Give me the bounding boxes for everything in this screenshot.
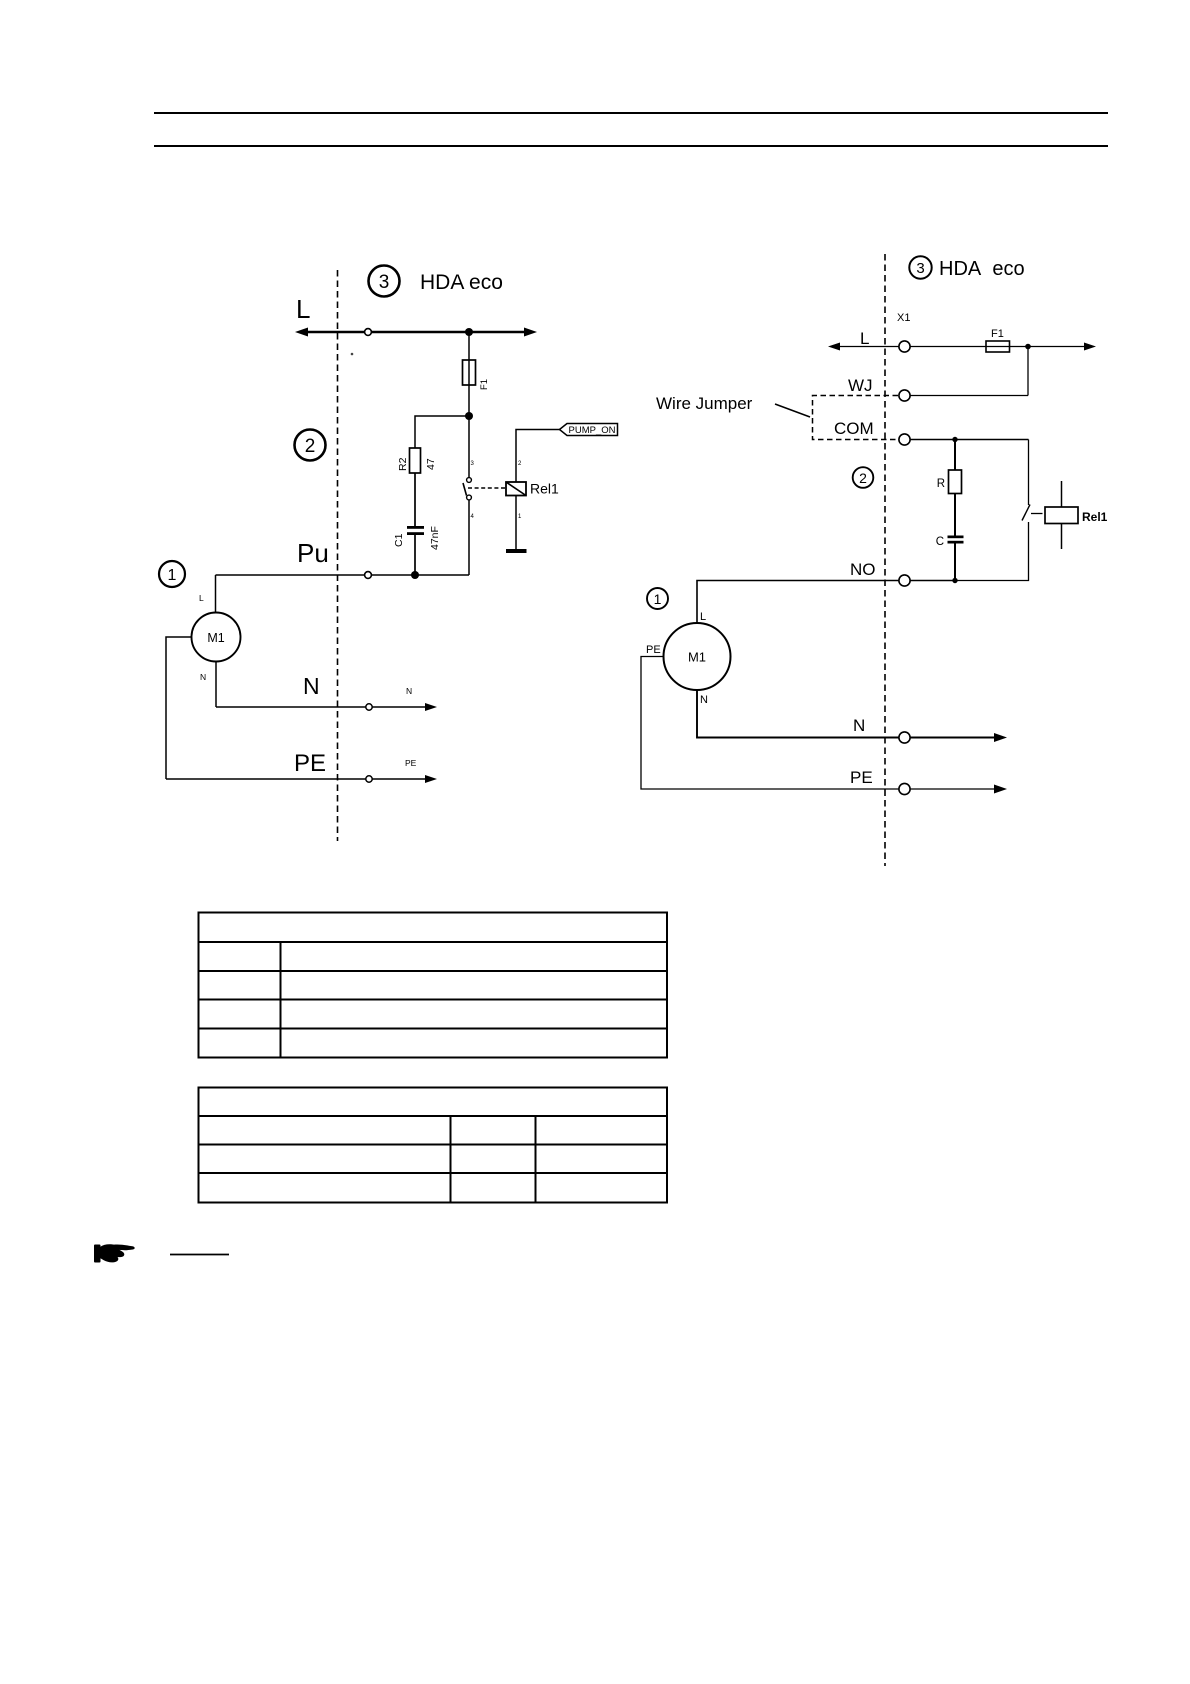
boundary dashed line (right diagram) — [884, 254, 886, 866]
callout circle 1 (right) — [647, 588, 668, 609]
table 1 frame — [199, 913, 668, 1058]
resistor R2 value 47 — [397, 448, 437, 473]
wire Pu line — [216, 574, 470, 576]
callout circle 1 (left) — [159, 561, 185, 587]
dashed actuation link to Rel1 — [468, 487, 506, 489]
wire fuse to node — [468, 385, 470, 416]
callout line to jumper — [775, 404, 810, 417]
svg-text:N: N — [406, 686, 412, 696]
junction COM/R — [952, 437, 957, 442]
wire PE line — [166, 778, 430, 780]
note manicule hand icon — [94, 1244, 135, 1262]
wire C to NO row — [954, 544, 956, 581]
terminal circle on L line — [365, 329, 372, 336]
arrowhead N (right) — [994, 733, 1007, 742]
svg-text:WJ: WJ — [848, 376, 873, 395]
svg-text:1: 1 — [518, 514, 522, 520]
wire L line (left) — [299, 331, 533, 334]
switch blade — [463, 483, 467, 496]
svg-text:PE: PE — [294, 750, 326, 777]
svg-text:NO: NO — [850, 560, 876, 579]
wire fuse to right arrow — [1010, 346, 1093, 348]
wire COM corner down to switch — [1028, 440, 1030, 506]
fuse F1 (right) — [986, 328, 1010, 352]
terminal circle WJ — [899, 390, 910, 401]
svg-text:L: L — [199, 593, 204, 603]
svg-text:N: N — [700, 694, 708, 706]
svg-text:L: L — [860, 329, 869, 348]
wire L row left segment — [832, 346, 899, 348]
svg-text:PUMP_ON: PUMP_ON — [569, 425, 616, 436]
capacitor C — [936, 536, 964, 549]
terminal circle on N line — [366, 704, 372, 710]
wire R2 to C1 — [414, 473, 416, 527]
terminal circle PE (right) — [899, 783, 910, 794]
junction NO/C — [952, 578, 957, 583]
arrowhead L row left — [828, 343, 840, 351]
switch contact upper — [467, 478, 472, 483]
callout circle 3 (right) — [909, 256, 931, 278]
svg-text:L: L — [296, 294, 310, 324]
junction on L line — [465, 328, 473, 336]
switch actuator tick — [1031, 513, 1043, 515]
svg-text:X1: X1 — [897, 312, 910, 324]
svg-text:COM: COM — [834, 419, 874, 438]
wire PE arrow — [911, 788, 1003, 790]
svg-text:3: 3 — [916, 260, 924, 277]
ground — [506, 549, 527, 553]
arrowhead N — [425, 703, 437, 711]
svg-text:4: 4 — [471, 514, 475, 520]
wire NO row left to motor — [697, 581, 899, 624]
wire Pu to motor — [215, 575, 217, 613]
junction Pu/C1 — [411, 571, 419, 579]
terminal circle L — [899, 341, 910, 352]
svg-text:PE: PE — [646, 644, 661, 656]
wire Pu to switch lower contact — [468, 500, 470, 575]
wire NO row right — [911, 580, 956, 582]
terminal circle COM — [899, 434, 910, 445]
wire Rel1 to PUMP_ON flag — [516, 430, 560, 483]
wire COM row — [911, 439, 1029, 441]
svg-text:1: 1 — [654, 591, 662, 607]
wire L to fuse — [468, 332, 470, 361]
arrowhead PE (right) — [994, 785, 1007, 794]
svg-text:Wire Jumper: Wire Jumper — [656, 394, 753, 413]
terminal circle NO — [899, 575, 910, 586]
terminal circle N (right) — [899, 732, 910, 743]
svg-text:2: 2 — [305, 436, 316, 457]
motor M1 (right) — [664, 623, 731, 690]
svg-text:PE: PE — [405, 758, 417, 768]
svg-text:F1: F1 — [991, 328, 1004, 340]
header rule bottom — [154, 145, 1108, 147]
node junction below fuse — [465, 412, 473, 420]
wire switch to NO row — [955, 522, 1029, 581]
wire N arrow — [911, 737, 1003, 739]
wire junction down to WJ — [1027, 347, 1029, 396]
wire motor to PE line — [166, 637, 192, 779]
fuse F1 (left) — [463, 360, 491, 390]
arrowhead L left — [295, 328, 308, 337]
wire motor to N line — [215, 662, 217, 708]
wire N line — [216, 706, 430, 708]
header rule top — [154, 112, 1108, 114]
wire L terminal to fuse — [911, 346, 987, 348]
svg-text:N: N — [853, 716, 865, 735]
svg-text:L: L — [700, 611, 706, 623]
svg-text:47nF: 47nF — [429, 526, 441, 550]
svg-text:HDA eco: HDA eco — [420, 271, 503, 294]
wire motor to N row — [697, 690, 899, 738]
wire C1 to Pu line — [414, 535, 416, 575]
wire Rel1 to ground — [515, 496, 517, 550]
svg-text:M1: M1 — [207, 631, 224, 645]
svg-text:1: 1 — [168, 567, 177, 584]
callout circle 2 (right) — [853, 467, 874, 488]
svg-text:F1: F1 — [479, 379, 490, 390]
svg-text:C1: C1 — [393, 533, 405, 547]
svg-text:M1: M1 — [688, 650, 706, 665]
svg-text:Rel1: Rel1 — [1082, 510, 1108, 524]
svg-text:2: 2 — [859, 470, 867, 486]
svg-text:Pu: Pu — [297, 538, 329, 568]
arrowhead PE — [425, 775, 437, 783]
callout circle 3 (left) — [369, 266, 400, 297]
svg-text:3: 3 — [379, 272, 390, 293]
svg-text:R2: R2 — [397, 457, 409, 471]
arrowhead L row right — [1084, 343, 1096, 351]
svg-text:PE: PE — [850, 768, 873, 787]
svg-text:C: C — [936, 536, 944, 548]
capacitor C1 value 47nF — [393, 526, 441, 550]
wire R to C — [954, 494, 956, 537]
motor M1 (left) — [192, 613, 241, 662]
relay coil Rel1 (right) — [1045, 481, 1108, 549]
table 2 frame — [199, 1088, 668, 1203]
wire jumper dashed box — [813, 396, 899, 440]
switch blade (right) — [1022, 505, 1030, 521]
resistor R — [937, 470, 962, 494]
wire node to R2 branch — [415, 416, 469, 448]
boundary dashed line (left diagram) — [337, 270, 339, 841]
arrowhead L right — [524, 328, 537, 337]
svg-text:HDA eco: HDA eco — [939, 258, 1025, 280]
svg-text:2: 2 — [518, 461, 522, 467]
switch contact lower — [467, 495, 472, 500]
wire WJ row — [911, 395, 1029, 397]
svg-text:3: 3 — [471, 461, 475, 467]
svg-text:N: N — [200, 672, 206, 682]
svg-text:N: N — [303, 673, 320, 699]
note underline — [170, 1254, 229, 1256]
wire motor to PE row — [641, 657, 899, 790]
terminal circle on PE line — [366, 776, 372, 782]
net flag PUMP_ON — [560, 424, 618, 437]
junction after fuse — [1025, 344, 1031, 350]
callout circle 2 (left) — [295, 430, 326, 461]
wire upper contact to node — [468, 416, 470, 478]
stray speck — [351, 353, 354, 356]
wire COM to R — [954, 440, 956, 471]
svg-text:R: R — [937, 478, 945, 490]
svg-text:47: 47 — [425, 458, 437, 470]
terminal circle on Pu line — [365, 572, 372, 579]
svg-text:Rel1: Rel1 — [530, 481, 559, 497]
relay coil Rel1 (left) — [506, 481, 559, 497]
